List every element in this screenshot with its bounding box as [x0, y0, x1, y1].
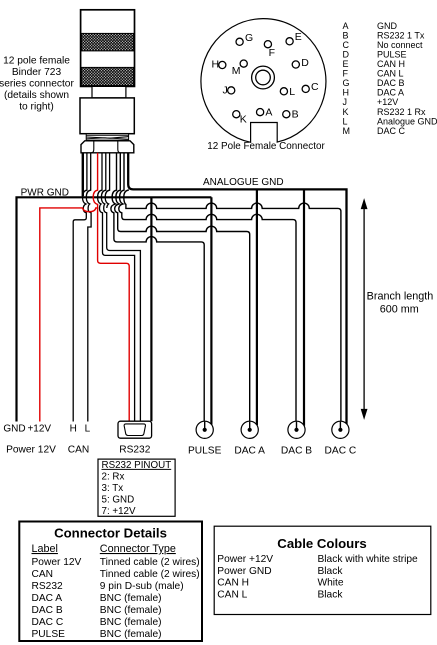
svg-text:CAN: CAN: [68, 445, 90, 456]
svg-text:K: K: [240, 114, 247, 126]
svg-text:L: L: [343, 116, 348, 126]
svg-text:BNC (female): BNC (female): [100, 629, 162, 640]
svg-text:M: M: [232, 65, 241, 77]
svg-text:(details shown: (details shown: [4, 90, 69, 101]
svg-text:M: M: [343, 126, 351, 136]
svg-text:DAC B: DAC B: [377, 78, 405, 88]
svg-text:G: G: [245, 32, 253, 44]
pin H: [212, 59, 226, 71]
svg-text:BNC (female): BNC (female): [100, 617, 162, 628]
svg-text:L: L: [85, 423, 91, 434]
svg-text:series connector: series connector: [0, 79, 74, 90]
svg-text:C: C: [343, 40, 350, 50]
BNC female DAC C: [332, 421, 349, 438]
svg-text:Binder 723: Binder 723: [12, 67, 62, 78]
svg-text:DAC A: DAC A: [377, 88, 404, 98]
Cable Colours table: [214, 526, 431, 614]
connector block: [80, 98, 134, 134]
svg-text:DAC C: DAC C: [377, 126, 406, 136]
svg-text:BNC (female): BNC (female): [100, 593, 162, 604]
svg-text:CAN L: CAN L: [217, 589, 247, 600]
svg-text:G: G: [343, 78, 350, 88]
wire: RS232 Tx (pin B): [98, 153, 135, 422]
svg-text:PULSE: PULSE: [188, 446, 222, 457]
svg-text:Power GND: Power GND: [217, 566, 271, 577]
pin K: [233, 111, 247, 126]
svg-text:BNC (female): BNC (female): [100, 605, 162, 616]
svg-text:Black: Black: [318, 589, 344, 600]
wire: DAC B shield drop: [303, 189, 305, 425]
svg-text:RS232 1 Rx: RS232 1 Rx: [377, 107, 426, 117]
svg-text:Cable Colours: Cable Colours: [277, 536, 366, 551]
svg-text:+12V: +12V: [377, 97, 398, 107]
pin A: [257, 107, 273, 119]
pin C: [302, 81, 319, 93]
RS232 PINOUT box: [98, 459, 175, 516]
svg-text:Power 12V: Power 12V: [32, 557, 82, 568]
wire: +12V (pin J, red) with hop over H2 and branch junction: [93, 153, 129, 422]
wire: PWR GND drop from connector (pin A): [82, 153, 84, 196]
svg-text:F: F: [269, 47, 275, 59]
svg-text:CAN H: CAN H: [377, 59, 405, 69]
svg-text:H: H: [212, 59, 220, 71]
svg-text:D: D: [301, 57, 309, 69]
wire: PWR GND horizontal + left drop to GND terminal: [17, 197, 212, 421]
pin J: [223, 84, 235, 96]
wire: CAN L (pin F): [86, 153, 91, 422]
svg-text:RS232 PINOUT: RS232 PINOUT: [102, 460, 172, 471]
connector neck: [92, 86, 126, 98]
dimension arrow: branch length: [361, 198, 368, 420]
svg-text:RS232: RS232: [32, 581, 63, 592]
svg-text:CAN L: CAN L: [377, 69, 404, 79]
pin F: [264, 41, 275, 59]
svg-text:2: Rx: 2: Rx: [102, 471, 125, 482]
svg-text:ANALOGUE GND: ANALOGUE GND: [203, 177, 284, 188]
svg-text:CAN: CAN: [32, 569, 54, 580]
svg-text:No connect: No connect: [377, 40, 423, 50]
pin M: [232, 60, 247, 77]
svg-text:12 pole female: 12 pole female: [3, 56, 70, 67]
svg-text:B: B: [343, 30, 349, 40]
svg-text:Black: Black: [318, 566, 344, 577]
svg-text:DAC B: DAC B: [32, 605, 63, 616]
wire: DAC C signal (pin M): [124, 189, 341, 428]
svg-text:9 pin D-sub (male): 9 pin D-sub (male): [100, 581, 184, 592]
wire: RS232 GND drop (from PWR GND): [150, 197, 152, 421]
svg-text:Connector Details: Connector Details: [54, 526, 167, 541]
center bush inner: [256, 70, 271, 85]
pin E: [286, 31, 302, 45]
svg-text:Tinned cable (2 wires): Tinned cable (2 wires): [100, 557, 200, 568]
svg-text:to right): to right): [19, 102, 54, 113]
svg-text:H: H: [343, 88, 350, 98]
pin D: [292, 57, 309, 69]
BNC female PULSE: [196, 421, 213, 438]
wire: PULSE shield drop (from PWR GND): [210, 197, 212, 424]
wire: DAC A shield drop: [256, 189, 258, 425]
svg-text:Branch length: Branch length: [367, 291, 434, 303]
svg-text:L: L: [289, 86, 295, 98]
12 pole female connector face (circle with keyway notch): [201, 19, 326, 143]
svg-text:H: H: [70, 423, 77, 434]
BNC female DAC B: [288, 421, 305, 438]
svg-text:5: GND: 5: GND: [102, 494, 135, 505]
svg-text:A: A: [265, 107, 272, 119]
svg-text:Analogue GND: Analogue GND: [377, 116, 437, 126]
pin G: [236, 32, 253, 45]
svg-text:7: +12V: 7: +12V: [102, 506, 137, 517]
svg-text:Label: Label: [32, 543, 58, 555]
terminal labels GND +12V H L: [3, 423, 90, 434]
wire: CAN H (pin E): [73, 153, 87, 422]
hex nut: [81, 141, 134, 153]
svg-text:12 Pole Female Connector: 12 Pole Female Connector: [207, 141, 325, 152]
svg-text:Black with white stripe: Black with white stripe: [318, 554, 419, 565]
wire: DAC B signal (pin G): [119, 153, 296, 428]
svg-text:C: C: [311, 81, 319, 93]
svg-text:3: Tx: 3: Tx: [102, 483, 124, 494]
wire: PULSE signal (pin D): [111, 153, 204, 428]
svg-text:D: D: [343, 50, 350, 60]
svg-text:F: F: [343, 69, 349, 79]
svg-text:PULSE: PULSE: [32, 629, 66, 640]
svg-text:White: White: [318, 578, 344, 589]
svg-text:DAC A: DAC A: [32, 593, 63, 604]
svg-text:A: A: [343, 21, 349, 31]
svg-text:600 mm: 600 mm: [380, 304, 419, 316]
wire: +12V branch to power terminal (red, dips under CAN wires): [40, 208, 98, 422]
svg-text:+12V: +12V: [27, 423, 51, 434]
center bush outer: [252, 66, 275, 89]
knurled band upper: [81, 33, 133, 51]
pin L: [280, 86, 295, 98]
wire: ANALOGUE GND (pin L) to DAC C shield: [128, 153, 346, 424]
RS232 9-pin D-sub connector: [118, 421, 152, 438]
Connector Details table: [19, 522, 202, 642]
svg-text:CAN H: CAN H: [217, 578, 249, 589]
12-pole Binder 723 connector body: [81, 10, 135, 87]
connector group labels: [6, 445, 356, 457]
svg-text:B: B: [292, 109, 299, 121]
svg-text:RS232 1 Tx: RS232 1 Tx: [377, 30, 425, 40]
BNC female DAC A: [241, 421, 258, 438]
svg-text:Connector Type: Connector Type: [100, 543, 176, 555]
svg-text:E: E: [295, 31, 302, 43]
svg-text:J: J: [223, 84, 228, 96]
svg-text:RS232: RS232: [119, 445, 150, 456]
wire: RS232 Rx (pin K): [101, 153, 140, 422]
wire: DAC A signal (pin H): [115, 153, 250, 428]
wire: stub (no-connect C): [105, 153, 109, 208]
svg-text:E: E: [343, 59, 349, 69]
pin legend A-M: [343, 21, 437, 136]
label: 12 pole female Binder 723 series connector: [0, 56, 74, 113]
svg-text:K: K: [343, 107, 349, 117]
svg-text:DAC B: DAC B: [281, 446, 312, 457]
svg-text:Tinned cable (2 wires): Tinned cable (2 wires): [100, 569, 200, 580]
svg-text:GND: GND: [3, 423, 25, 434]
svg-text:PULSE: PULSE: [377, 50, 407, 60]
hex nut facet lines: [91, 141, 120, 153]
svg-text:J: J: [343, 97, 348, 107]
svg-text:DAC C: DAC C: [325, 446, 357, 457]
pin B: [283, 109, 299, 121]
svg-text:Power 12V: Power 12V: [6, 445, 56, 456]
svg-text:DAC A: DAC A: [234, 446, 265, 457]
threaded section: [86, 134, 128, 140]
svg-text:Power +12V: Power +12V: [217, 554, 273, 565]
knurled band lower: [81, 67, 133, 85]
svg-text:GND: GND: [377, 21, 398, 31]
svg-text:DAC C: DAC C: [32, 617, 64, 628]
